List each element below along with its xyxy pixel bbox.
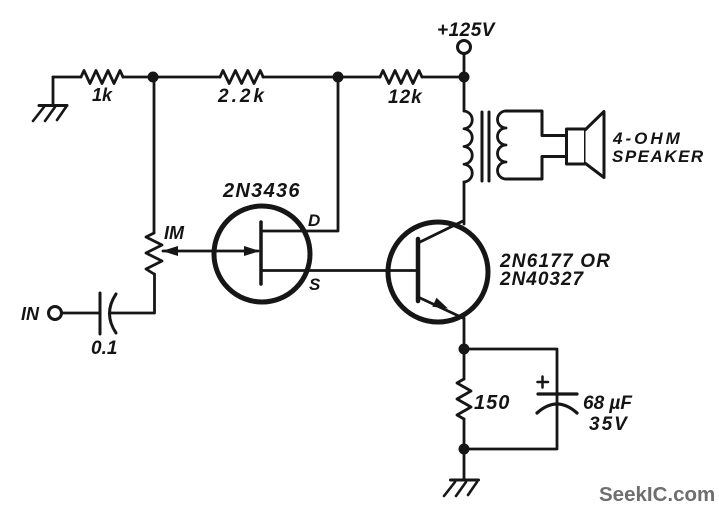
- resistor R1 1k: [81, 71, 123, 84]
- wire source S to transistor base: [261, 269, 416, 272]
- wire node C to supply terminal: [463, 54, 466, 72]
- svg-text:2N40327: 2N40327: [499, 269, 585, 290]
- JFET Q1 gate arrowhead: [244, 246, 260, 256]
- wire R3 to node C: [422, 76, 464, 79]
- svg-text:68 µF: 68 µF: [583, 393, 633, 414]
- svg-text:IN: IN: [21, 304, 40, 324]
- svg-text:IM: IM: [164, 223, 185, 243]
- speaker LS1 cone: [586, 112, 605, 178]
- wire R5 to node E: [463, 419, 466, 444]
- svg-text:SPEAKER: SPEAKER: [612, 147, 705, 166]
- svg-text:35V: 35V: [589, 414, 629, 435]
- input terminal IN: [49, 307, 62, 320]
- svg-text:2N3436: 2N3436: [222, 180, 301, 202]
- wire emitter to node D: [463, 318, 466, 344]
- capacitor C2 top plate: [538, 392, 577, 395]
- capacitor C1 curved plate: [110, 294, 117, 333]
- wire IN to capacitor C1: [62, 312, 100, 315]
- JFET Q1 2N3436 body: [214, 206, 310, 302]
- svg-text:2.2k: 2.2k: [217, 86, 267, 107]
- capacitor C2 curved plate: [537, 404, 577, 413]
- svg-text:4-OHM: 4-OHM: [612, 129, 683, 148]
- speaker LS1 frame: [567, 129, 586, 164]
- svg-text:S: S: [309, 275, 321, 294]
- transistor Q2 collector lead: [418, 221, 463, 243]
- node A: [148, 72, 159, 83]
- wire node E to ground: [463, 454, 466, 479]
- supply terminal +125V: [458, 41, 471, 54]
- node D: [459, 344, 470, 355]
- wire R1 to node A and on to R2: [123, 76, 220, 79]
- transistor Q2 emitter arrowhead: [432, 298, 448, 309]
- resistor R5 150: [457, 379, 471, 419]
- wire ground riser top-left: [52, 77, 55, 104]
- wire ground to R1: [53, 76, 81, 79]
- potentiometer R4 1M element: [146, 233, 162, 274]
- capacitor C1 left plate: [99, 293, 102, 334]
- resistor R3 12k: [380, 71, 422, 84]
- wire node D to R5: [463, 354, 466, 379]
- transistor Q2 body: [388, 222, 488, 322]
- wire wiper to JFET gate: [163, 250, 258, 253]
- transformer T1 primary coil: [464, 111, 472, 182]
- wire drain D to node B: [262, 82, 338, 231]
- resistor R2 2.2k: [220, 71, 263, 84]
- potentiometer wiper arrowhead: [162, 246, 178, 256]
- transformer T1 secondary coil: [498, 111, 507, 179]
- transformer T1 secondary frame and stubs: [506, 111, 567, 179]
- wire R2 to node B: [263, 76, 338, 79]
- JFET Q1 channel bar: [259, 222, 263, 284]
- wire node A to potentiometer: [153, 82, 156, 233]
- svg-text:+125V: +125V: [437, 20, 496, 41]
- transistor Q2 base bar: [416, 239, 421, 301]
- ground GND1: [33, 106, 67, 122]
- transistor Q2 emitter lead: [418, 297, 463, 318]
- capacitor C2 polarity plus: [538, 377, 549, 388]
- wire primary to collector junction: [463, 182, 466, 224]
- wire node B to R3: [338, 76, 380, 79]
- node C: [459, 72, 470, 83]
- wire capacitor C2 to node E: [469, 404, 557, 449]
- svg-text:SeekIC.com: SeekIC.com: [599, 483, 715, 506]
- wire node C to transformer primary: [463, 82, 466, 111]
- transformer T1 core: [482, 112, 489, 181]
- node E: [459, 444, 470, 455]
- wire node D to capacitor C2: [469, 349, 557, 402]
- ground GND2: [444, 480, 479, 496]
- svg-text:150: 150: [474, 392, 510, 414]
- svg-text:D: D: [308, 211, 320, 230]
- wire C1 to potentiometer bottom: [110, 274, 155, 313]
- svg-text:12k: 12k: [388, 87, 423, 108]
- svg-text:0.1: 0.1: [91, 338, 117, 359]
- svg-text:1k: 1k: [92, 85, 113, 105]
- node B: [333, 72, 344, 83]
